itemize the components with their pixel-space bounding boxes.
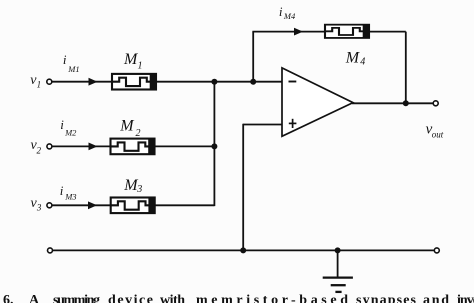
svg-text:device: device bbox=[108, 293, 153, 303]
svg-text:M3: M3 bbox=[64, 192, 76, 202]
svg-text:synapses: synapses bbox=[356, 293, 417, 303]
svg-text:1: 1 bbox=[37, 80, 42, 90]
svg-text:i: i bbox=[60, 183, 64, 198]
svg-text:with: with bbox=[160, 293, 185, 303]
svg-text:2: 2 bbox=[37, 146, 42, 156]
svg-text:inve: inve bbox=[457, 293, 474, 303]
svg-text:A: A bbox=[29, 293, 40, 303]
svg-text:1: 1 bbox=[138, 60, 143, 71]
svg-text:2: 2 bbox=[136, 128, 141, 139]
svg-text:out: out bbox=[432, 130, 444, 140]
svg-text:4: 4 bbox=[360, 57, 365, 68]
svg-text:M: M bbox=[345, 49, 361, 66]
svg-text:i: i bbox=[60, 117, 64, 132]
svg-text:M: M bbox=[119, 118, 135, 135]
svg-text:and: and bbox=[423, 293, 449, 303]
svg-text:3: 3 bbox=[36, 203, 42, 213]
svg-text:i: i bbox=[63, 52, 67, 67]
svg-text:summing: summing bbox=[53, 293, 100, 303]
svg-text:i: i bbox=[279, 4, 283, 19]
svg-text:6.: 6. bbox=[3, 293, 14, 303]
svg-text:M2: M2 bbox=[64, 127, 77, 137]
svg-text:M1: M1 bbox=[67, 64, 79, 74]
svg-text:M4: M4 bbox=[283, 11, 296, 21]
svg-text:3: 3 bbox=[136, 184, 142, 195]
